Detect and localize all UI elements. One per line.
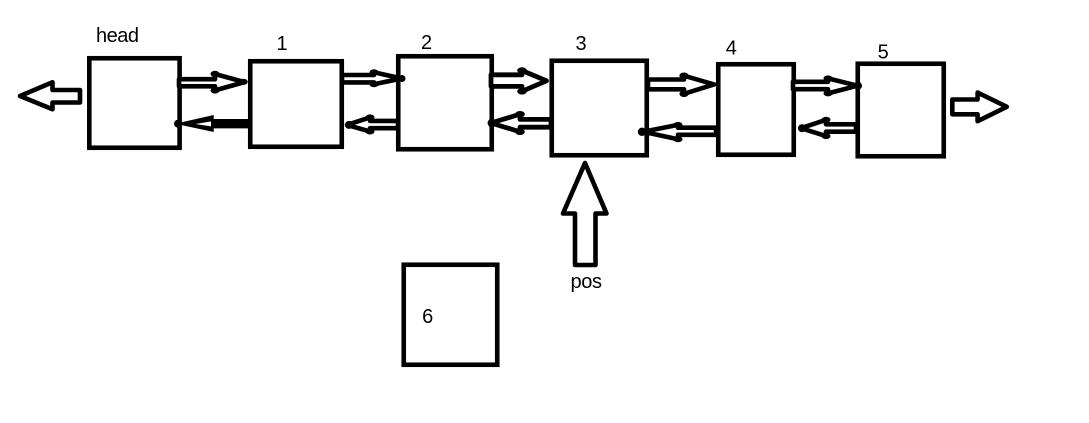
svg-text:5: 5 [878, 42, 889, 64]
pos up arrow pointing at node 3 [563, 163, 607, 265]
arrow 2 to 1 (prev pointer) [345, 114, 398, 134]
svg-text:3: 3 [575, 33, 586, 55]
svg-text:4: 4 [726, 37, 737, 59]
arrow 4 to 5 (next pointer) [793, 75, 862, 96]
arrow 1 to head (prev pointer, heavy) [174, 115, 248, 132]
arrow 3 to 4 (next pointer) [648, 73, 721, 98]
node 6 (detached box) [404, 265, 498, 365]
node head (box) [89, 58, 179, 148]
arrow 5 to 4 (prev pointer) [798, 117, 856, 139]
node 2 (box) [398, 56, 492, 149]
arrow 2 to 3 (next pointer) [491, 67, 547, 94]
svg-text:2: 2 [421, 32, 432, 54]
arrow 1 to 2 (next pointer) [342, 69, 406, 87]
arrow head to 1 (next pointer) [179, 71, 248, 94]
svg-text:pos: pos [571, 271, 602, 293]
node 4 (box) [718, 64, 794, 155]
svg-text:6: 6 [422, 306, 433, 328]
arrow 4 to 3 (prev pointer) [638, 122, 716, 142]
arrow 3 to 2 (prev pointer) [488, 111, 551, 135]
svg-text:head: head [96, 25, 139, 47]
svg-text:1: 1 [276, 33, 287, 55]
node 5 (box) [858, 64, 944, 157]
right exit arrow from node 5 [952, 93, 1007, 122]
node 3 (box) [552, 61, 647, 156]
node 1 (box) [250, 61, 342, 147]
left exit arrow from head [20, 82, 80, 109]
